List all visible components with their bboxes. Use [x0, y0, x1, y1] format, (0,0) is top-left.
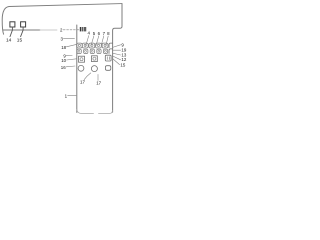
leader 15: [21, 27, 24, 37]
leader 1: [68, 94, 77, 96]
button row1 cell1: [77, 43, 82, 48]
contact C: [105, 66, 110, 71]
svg-text:18: 18: [61, 45, 66, 50]
module bottom dashed: [77, 110, 113, 114]
svg-text:14: 14: [6, 38, 12, 44]
screw hole A: [80, 58, 83, 61]
button row1 cell3: [89, 43, 95, 48]
module left wall: [76, 25, 78, 112]
leader 4: [86, 36, 89, 47]
housing left rounded nose: [2, 7, 9, 35]
housing right stepped edge: [113, 4, 122, 113]
inner wall line: [3, 29, 40, 31]
leader 5: [91, 36, 94, 46]
svg-text:16: 16: [61, 65, 66, 70]
screw hole C: [107, 57, 109, 60]
screw hole B: [93, 57, 96, 60]
svg-text:7: 7: [103, 31, 106, 36]
button row2 cell5: [103, 49, 107, 53]
contact circle A: [78, 65, 84, 71]
svg-text:5: 5: [93, 31, 96, 36]
leader 10: [67, 59, 77, 60]
button row2 cell2: [84, 49, 88, 53]
leader 2 dashed: [63, 29, 79, 31]
inner wall line faint part: [40, 29, 57, 31]
button row1 cell6 partial: [109, 43, 112, 48]
screw housing B: [92, 56, 98, 62]
leader 18: [66, 44, 76, 46]
leader 17 right: [97, 74, 99, 80]
housing top edge: [9, 4, 122, 7]
leader 6: [96, 36, 99, 46]
screw housing C: [105, 55, 111, 61]
right leader 9: [113, 45, 121, 48]
svg-text:12: 12: [121, 57, 126, 62]
svg-text:10: 10: [61, 58, 66, 63]
svg-text:4: 4: [88, 31, 91, 36]
svg-text:2: 2: [60, 28, 63, 33]
hatched component 2: [80, 27, 86, 31]
right leader 19: [113, 49, 121, 51]
leader 8: [106, 36, 108, 46]
button row1 cell2: [82, 43, 88, 48]
button row2 cell4: [97, 49, 101, 53]
screw housing A: [79, 56, 85, 62]
leader 17 left curved: [84, 73, 91, 80]
button row2 cell3: [90, 49, 94, 53]
svg-text:6: 6: [98, 31, 101, 36]
svg-text:17: 17: [80, 80, 85, 85]
leader 16: [66, 65, 75, 68]
svg-text:3: 3: [61, 37, 64, 42]
svg-text:1: 1: [65, 94, 68, 99]
svg-text:17: 17: [96, 81, 101, 86]
switch block 15: [21, 22, 26, 27]
leader 9 left: [66, 55, 72, 57]
right leader 15b: [113, 59, 120, 65]
button row2 cell6 partial: [109, 49, 112, 54]
svg-text:15: 15: [17, 38, 23, 44]
right leader 12: [113, 56, 121, 60]
contact circle B: [91, 66, 97, 72]
leader 14: [10, 27, 12, 37]
button row1 cell5: [102, 43, 108, 48]
button row2 cell1: [77, 49, 81, 53]
button row1 cell4: [96, 43, 102, 48]
right leader 13: [113, 53, 121, 55]
svg-text:8: 8: [107, 31, 110, 36]
switch block 14: [10, 22, 15, 27]
svg-text:15: 15: [120, 63, 125, 68]
leader 3: [63, 38, 74, 40]
leader 7: [101, 36, 104, 46]
